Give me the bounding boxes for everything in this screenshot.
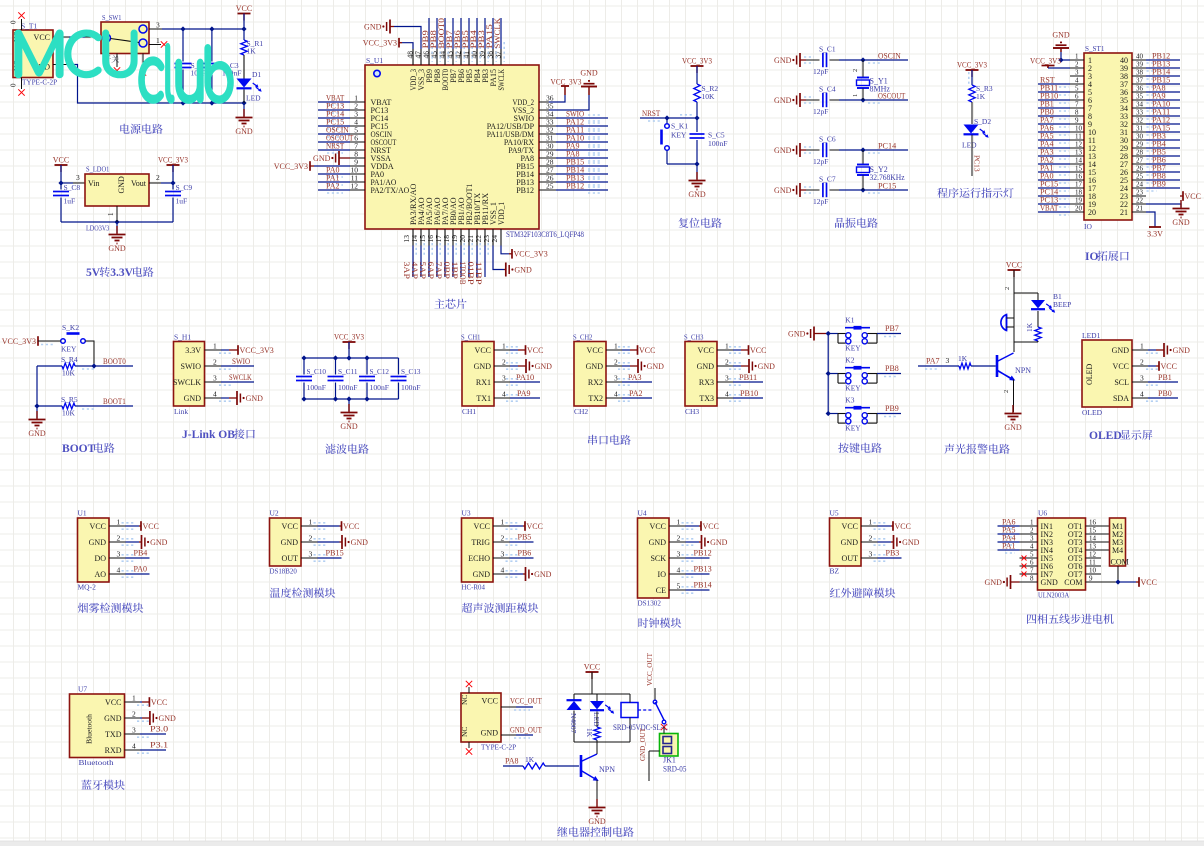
svg-text:VCC_3V3: VCC_3V3 bbox=[240, 346, 274, 355]
svg-text:GND: GND bbox=[150, 538, 168, 547]
svg-text:VCC: VCC bbox=[151, 698, 167, 707]
svg-text:PB0: PB0 bbox=[1158, 389, 1172, 398]
svg-text:SWCLK: SWCLK bbox=[493, 18, 502, 49]
svg-text:VCC: VCC bbox=[750, 346, 766, 355]
svg-text:PB7: PB7 bbox=[885, 324, 899, 333]
svg-text:OLED: OLED bbox=[1085, 363, 1094, 385]
svg-text:VCC: VCC bbox=[53, 156, 69, 165]
svg-text:LED: LED bbox=[246, 94, 261, 103]
svg-text:PA3: PA3 bbox=[628, 373, 642, 382]
svg-text:26: 26 bbox=[1136, 165, 1144, 173]
svg-text:VCC_3V3: VCC_3V3 bbox=[334, 333, 364, 342]
svg-text:Vout: Vout bbox=[131, 179, 147, 188]
svg-text:S_C13: S_C13 bbox=[401, 367, 421, 376]
svg-text:GND: GND bbox=[535, 362, 553, 371]
svg-text:29: 29 bbox=[1136, 141, 1144, 149]
svg-text:VCC_3V3: VCC_3V3 bbox=[957, 61, 987, 70]
svg-text:S_C7: S_C7 bbox=[819, 175, 836, 184]
svg-text:VCC_3V3: VCC_3V3 bbox=[158, 156, 188, 165]
svg-text:32.768KHz: 32.768KHz bbox=[870, 173, 906, 182]
svg-text:1: 1 bbox=[132, 694, 136, 703]
svg-text:K1: K1 bbox=[845, 315, 854, 324]
svg-text:12pF: 12pF bbox=[813, 157, 828, 166]
svg-text:VCC: VCC bbox=[1113, 362, 1129, 371]
svg-text:U7: U7 bbox=[78, 685, 87, 694]
svg-text:4: 4 bbox=[614, 390, 618, 399]
svg-text:VCC: VCC bbox=[1161, 362, 1177, 371]
svg-text:4: 4 bbox=[1030, 543, 1034, 551]
svg-text:GND: GND bbox=[474, 362, 492, 371]
svg-text:3: 3 bbox=[725, 374, 729, 383]
svg-text:S_C12: S_C12 bbox=[370, 367, 390, 376]
svg-text:STM32F103C8T6_LQFP48: STM32F103C8T6_LQFP48 bbox=[506, 230, 584, 239]
svg-text:SDA: SDA bbox=[1113, 394, 1129, 403]
svg-text:7: 7 bbox=[1075, 101, 1079, 109]
svg-text:0: 0 bbox=[10, 20, 18, 24]
svg-text:13: 13 bbox=[1075, 149, 1083, 157]
svg-text:PA1: PA1 bbox=[1002, 542, 1016, 551]
svg-text:S_LDO1: S_LDO1 bbox=[86, 165, 110, 174]
svg-text:10K: 10K bbox=[62, 369, 76, 378]
svg-text:5: 5 bbox=[1075, 85, 1079, 93]
svg-text:17: 17 bbox=[1075, 181, 1083, 189]
svg-text:S_K2: S_K2 bbox=[62, 323, 79, 332]
svg-text:GND: GND bbox=[586, 362, 604, 371]
svg-text:3: 3 bbox=[132, 726, 136, 735]
svg-text:1: 1 bbox=[1075, 53, 1079, 61]
svg-text:KEY: KEY bbox=[845, 384, 861, 393]
svg-text:PB15: PB15 bbox=[326, 549, 344, 558]
svg-text:PB3: PB3 bbox=[886, 549, 900, 558]
svg-text:100nF: 100nF bbox=[307, 383, 327, 392]
svg-text:P3.0: P3.0 bbox=[150, 725, 168, 734]
svg-text:3: 3 bbox=[309, 550, 313, 559]
svg-text:GND: GND bbox=[1112, 346, 1130, 355]
svg-text:33: 33 bbox=[1136, 109, 1144, 117]
svg-text:1: 1 bbox=[501, 518, 505, 527]
svg-text:14: 14 bbox=[1075, 157, 1083, 165]
svg-text:M4: M4 bbox=[1112, 546, 1123, 555]
svg-text:SWCLK: SWCLK bbox=[173, 378, 201, 387]
svg-text:GND: GND bbox=[649, 538, 667, 547]
svg-text:Vin: Vin bbox=[88, 179, 100, 188]
svg-text:1: 1 bbox=[156, 36, 160, 45]
svg-text:PB1: PB1 bbox=[1158, 373, 1172, 382]
svg-text:VDD_1: VDD_1 bbox=[497, 202, 506, 225]
svg-text:100nF: 100nF bbox=[401, 383, 421, 392]
svg-text:ECHO: ECHO bbox=[468, 554, 490, 563]
svg-text:GND: GND bbox=[514, 266, 532, 275]
svg-text:S_K1: S_K1 bbox=[671, 122, 688, 131]
svg-text:VCC: VCC bbox=[474, 522, 490, 531]
svg-text:GND: GND bbox=[235, 127, 253, 136]
svg-text:OUT: OUT bbox=[282, 554, 299, 563]
svg-text:GND: GND bbox=[774, 96, 792, 105]
svg-text:VCC_OUT: VCC_OUT bbox=[645, 653, 654, 686]
svg-text:VCC: VCC bbox=[1141, 578, 1157, 587]
svg-text:GND: GND bbox=[841, 538, 859, 547]
svg-text:VCC: VCC bbox=[343, 522, 359, 531]
svg-text:PB12: PB12 bbox=[566, 182, 584, 191]
svg-text:VBAT: VBAT bbox=[1040, 204, 1058, 213]
svg-text:2: 2 bbox=[132, 710, 136, 719]
svg-text:Bluetooth: Bluetooth bbox=[85, 714, 94, 744]
svg-text:1: 1 bbox=[725, 342, 729, 351]
svg-text:GND: GND bbox=[985, 578, 1003, 587]
svg-text:3: 3 bbox=[117, 550, 121, 559]
svg-text:GND: GND bbox=[159, 714, 177, 723]
svg-text:3: 3 bbox=[946, 356, 950, 365]
svg-text:20: 20 bbox=[1088, 208, 1096, 217]
svg-text:TX2: TX2 bbox=[588, 394, 603, 403]
svg-text:LDO3V3: LDO3V3 bbox=[86, 224, 110, 233]
svg-text:U4: U4 bbox=[638, 509, 647, 518]
svg-text:100nF: 100nF bbox=[370, 383, 390, 392]
svg-text:PB4: PB4 bbox=[134, 549, 148, 558]
svg-text:OUT: OUT bbox=[842, 554, 859, 563]
svg-text:1TOOB: 1TOOB bbox=[458, 262, 467, 285]
svg-text:S_C10: S_C10 bbox=[307, 367, 327, 376]
svg-text:31: 31 bbox=[1136, 125, 1144, 133]
svg-text:BEEP: BEEP bbox=[1053, 300, 1071, 309]
svg-text:25: 25 bbox=[546, 182, 554, 191]
svg-text:21: 21 bbox=[1136, 205, 1144, 213]
svg-text:VCC: VCC bbox=[1006, 261, 1022, 270]
svg-text:VCC: VCC bbox=[527, 346, 543, 355]
svg-text:SRD-05: SRD-05 bbox=[663, 765, 686, 774]
svg-text:S_U1: S_U1 bbox=[366, 56, 383, 65]
svg-text:VCC: VCC bbox=[639, 346, 655, 355]
svg-text:S_R5: S_R5 bbox=[61, 395, 78, 404]
svg-text:LED: LED bbox=[962, 141, 977, 150]
svg-text:3: 3 bbox=[501, 550, 505, 559]
svg-text:U5: U5 bbox=[830, 509, 839, 518]
svg-text:2: 2 bbox=[1004, 287, 1011, 290]
svg-text:GND: GND bbox=[313, 154, 331, 163]
svg-text:GND: GND bbox=[758, 362, 776, 371]
svg-text:2: 2 bbox=[309, 534, 313, 543]
svg-text:VCC: VCC bbox=[703, 522, 719, 531]
svg-text:12: 12 bbox=[1075, 141, 1083, 149]
svg-text:22: 22 bbox=[1136, 197, 1144, 205]
svg-text:CH1: CH1 bbox=[462, 407, 476, 416]
svg-text:GND: GND bbox=[647, 362, 665, 371]
svg-text:10: 10 bbox=[1089, 567, 1097, 575]
svg-text:19: 19 bbox=[1075, 197, 1083, 205]
svg-text:2: 2 bbox=[1075, 61, 1079, 69]
svg-text:TYPE-C-2P: TYPE-C-2P bbox=[481, 743, 516, 752]
svg-text:OLED: OLED bbox=[1089, 430, 1122, 442]
svg-text:COM: COM bbox=[1111, 558, 1129, 567]
svg-text:3: 3 bbox=[869, 550, 873, 559]
svg-text:VCC: VCC bbox=[698, 346, 714, 355]
svg-text:GND: GND bbox=[697, 362, 715, 371]
svg-text:IO: IO bbox=[658, 570, 667, 579]
svg-text:GND: GND bbox=[1172, 218, 1190, 227]
svg-text:GND_OUT: GND_OUT bbox=[638, 728, 647, 761]
svg-text:1K: 1K bbox=[247, 47, 257, 56]
svg-text:3.3V: 3.3V bbox=[110, 267, 133, 279]
svg-text:GND: GND bbox=[481, 729, 499, 738]
svg-text:SWCLK: SWCLK bbox=[497, 69, 506, 91]
svg-text:KEY: KEY bbox=[845, 424, 861, 433]
svg-text:ULN2003A: ULN2003A bbox=[1038, 591, 1070, 600]
svg-text:0BP: 0BP bbox=[442, 262, 451, 280]
svg-text:1: 1 bbox=[117, 518, 121, 527]
svg-text:PA2: PA2 bbox=[629, 389, 643, 398]
svg-text:2: 2 bbox=[1030, 527, 1034, 535]
svg-text:28: 28 bbox=[1136, 149, 1144, 157]
svg-text:SCL: SCL bbox=[1114, 378, 1129, 387]
svg-text:PC13: PC13 bbox=[973, 155, 982, 172]
svg-text:K3: K3 bbox=[845, 395, 854, 404]
svg-text:NC: NC bbox=[460, 695, 469, 705]
svg-text:GND_OUT: GND_OUT bbox=[510, 726, 542, 735]
svg-text:1: 1 bbox=[1030, 519, 1034, 527]
svg-text:RX1: RX1 bbox=[476, 378, 491, 387]
svg-text:2: 2 bbox=[869, 534, 873, 543]
svg-text:4: 4 bbox=[213, 390, 217, 399]
svg-text:VCC: VCC bbox=[105, 698, 121, 707]
svg-text:10K: 10K bbox=[702, 92, 716, 101]
svg-text:TRIG: TRIG bbox=[471, 538, 490, 547]
svg-text:1: 1 bbox=[614, 342, 618, 351]
svg-text:PA8: PA8 bbox=[505, 757, 519, 766]
svg-text:PB9: PB9 bbox=[885, 404, 899, 413]
svg-text:MQ-2: MQ-2 bbox=[78, 583, 97, 592]
svg-text:1K: 1K bbox=[525, 755, 535, 764]
svg-text:32: 32 bbox=[1136, 117, 1144, 125]
svg-text:VCC: VCC bbox=[584, 663, 600, 672]
svg-text:1BP: 1BP bbox=[450, 262, 459, 280]
svg-text:PC14: PC14 bbox=[878, 142, 896, 151]
svg-text:GND: GND bbox=[580, 69, 598, 78]
svg-text:PB13: PB13 bbox=[694, 565, 712, 574]
svg-text:S_C6: S_C6 bbox=[819, 135, 836, 144]
svg-text:8: 8 bbox=[1030, 575, 1034, 583]
svg-text:4: 4 bbox=[502, 390, 506, 399]
svg-text:TX1: TX1 bbox=[476, 394, 491, 403]
svg-text:GND: GND bbox=[774, 56, 792, 65]
svg-text:IO: IO bbox=[1085, 251, 1098, 263]
svg-text:VCC: VCC bbox=[475, 346, 491, 355]
svg-text:5AP: 5AP bbox=[418, 262, 427, 280]
svg-text:VCC: VCC bbox=[236, 4, 252, 13]
svg-text:NPN: NPN bbox=[599, 765, 615, 774]
svg-text:PB12: PB12 bbox=[516, 186, 534, 195]
svg-text:2: 2 bbox=[1003, 390, 1010, 393]
svg-text:2: 2 bbox=[213, 358, 217, 367]
svg-text:VCC_OUT: VCC_OUT bbox=[510, 697, 542, 706]
svg-text:VCC: VCC bbox=[527, 522, 543, 531]
svg-text:TX3: TX3 bbox=[699, 394, 714, 403]
svg-text:11: 11 bbox=[1075, 133, 1082, 141]
svg-text:1K: 1K bbox=[585, 728, 594, 738]
svg-text:RXD: RXD bbox=[105, 746, 122, 755]
svg-text:RX3: RX3 bbox=[699, 378, 714, 387]
svg-text:9: 9 bbox=[1075, 117, 1079, 125]
svg-text:HC-R04: HC-R04 bbox=[462, 583, 486, 592]
svg-text:SWIO: SWIO bbox=[232, 357, 250, 366]
svg-text:VCC_3V3: VCC_3V3 bbox=[2, 337, 36, 346]
svg-text:20: 20 bbox=[1075, 205, 1083, 213]
svg-text:16: 16 bbox=[1075, 173, 1083, 181]
svg-text:S_CH1: S_CH1 bbox=[461, 333, 481, 342]
svg-text:25: 25 bbox=[1136, 173, 1144, 181]
svg-text:GND: GND bbox=[1052, 31, 1070, 40]
svg-text:27: 27 bbox=[1136, 157, 1144, 165]
svg-text:NRST: NRST bbox=[642, 109, 660, 118]
svg-text:VCC_3V3: VCC_3V3 bbox=[551, 78, 582, 87]
svg-text:7AP: 7AP bbox=[434, 262, 443, 280]
svg-text:PB9: PB9 bbox=[1152, 180, 1166, 189]
svg-text:1: 1 bbox=[213, 342, 217, 351]
svg-text:5: 5 bbox=[1030, 551, 1034, 559]
svg-text:1: 1 bbox=[852, 94, 859, 97]
svg-text:BZ: BZ bbox=[830, 567, 840, 576]
svg-text:PB11: PB11 bbox=[739, 373, 757, 382]
svg-text:VCC: VCC bbox=[1185, 192, 1201, 201]
svg-text:S_ST1: S_ST1 bbox=[1085, 44, 1105, 53]
svg-text:VCC_3V3: VCC_3V3 bbox=[363, 39, 397, 48]
svg-text:4: 4 bbox=[677, 566, 681, 575]
svg-text:GND: GND bbox=[774, 186, 792, 195]
svg-text:PB12: PB12 bbox=[694, 549, 712, 558]
svg-text:16: 16 bbox=[1089, 519, 1097, 527]
svg-text:Bluetooth: Bluetooth bbox=[79, 758, 114, 767]
svg-text:35: 35 bbox=[1136, 93, 1144, 101]
svg-text:1uF: 1uF bbox=[176, 197, 188, 206]
svg-text:JK1: JK1 bbox=[663, 756, 676, 765]
svg-text:36: 36 bbox=[1136, 85, 1144, 93]
svg-text:CH2: CH2 bbox=[574, 407, 588, 416]
svg-text:S_T1: S_T1 bbox=[21, 22, 38, 31]
svg-text:3: 3 bbox=[1030, 535, 1034, 543]
svg-text:1: 1 bbox=[502, 342, 506, 351]
svg-text:4: 4 bbox=[132, 742, 136, 751]
svg-text:3: 3 bbox=[614, 374, 618, 383]
svg-text:GND: GND bbox=[108, 244, 126, 253]
svg-text:1: 1 bbox=[1140, 342, 1144, 351]
svg-text:1: 1 bbox=[677, 518, 681, 527]
svg-text:30: 30 bbox=[1136, 133, 1144, 141]
svg-text:RX2: RX2 bbox=[588, 378, 603, 387]
svg-text:COM: COM bbox=[1064, 578, 1082, 587]
svg-text:18: 18 bbox=[1075, 189, 1083, 197]
svg-text:SWIO: SWIO bbox=[181, 362, 202, 371]
svg-text:KEY: KEY bbox=[845, 344, 861, 353]
svg-text:GND: GND bbox=[246, 394, 264, 403]
svg-text:GND: GND bbox=[788, 330, 806, 339]
svg-text:38: 38 bbox=[1136, 69, 1144, 77]
svg-text:S_C8: S_C8 bbox=[64, 183, 81, 192]
svg-text:VCC: VCC bbox=[587, 346, 603, 355]
svg-text:1K: 1K bbox=[958, 354, 968, 363]
svg-text:IO: IO bbox=[1084, 222, 1092, 231]
svg-text:N4007: N4007 bbox=[569, 713, 578, 734]
svg-text:3: 3 bbox=[213, 374, 217, 383]
svg-text:BOOT1: BOOT1 bbox=[103, 397, 126, 406]
svg-text:11BP: 11BP bbox=[474, 262, 483, 286]
svg-text:BOOT0: BOOT0 bbox=[103, 357, 126, 366]
svg-text:PA2/TX/AO: PA2/TX/AO bbox=[371, 186, 410, 195]
svg-text:1K: 1K bbox=[1025, 322, 1034, 332]
svg-text:NC: NC bbox=[460, 727, 469, 737]
svg-text:37: 37 bbox=[1136, 77, 1144, 85]
svg-text:GND: GND bbox=[473, 570, 491, 579]
svg-text:VCC: VCC bbox=[282, 522, 298, 531]
svg-text:D1: D1 bbox=[252, 70, 261, 79]
svg-text:PA7: PA7 bbox=[926, 357, 940, 366]
svg-text:PB5: PB5 bbox=[518, 533, 532, 542]
svg-text:12: 12 bbox=[351, 182, 359, 191]
svg-text:GND: GND bbox=[534, 570, 552, 579]
svg-text:24: 24 bbox=[1136, 181, 1144, 189]
svg-text:U2: U2 bbox=[270, 509, 279, 518]
svg-text:GND: GND bbox=[364, 23, 382, 32]
svg-text:NRST: NRST bbox=[326, 142, 344, 151]
svg-text:VCC_3V3: VCC_3V3 bbox=[682, 57, 712, 66]
svg-text:GND: GND bbox=[688, 190, 706, 199]
svg-text:DS18B20: DS18B20 bbox=[270, 567, 298, 576]
svg-text:PB10: PB10 bbox=[740, 389, 758, 398]
svg-text:U3: U3 bbox=[462, 509, 471, 518]
svg-text:GND: GND bbox=[710, 538, 728, 547]
svg-text:3: 3 bbox=[1075, 69, 1079, 77]
svg-text:12pF: 12pF bbox=[813, 107, 828, 116]
svg-text:VCC: VCC bbox=[482, 697, 498, 706]
svg-text:40: 40 bbox=[1136, 53, 1144, 61]
svg-text:2: 2 bbox=[1140, 358, 1144, 367]
svg-text:5V: 5V bbox=[86, 267, 101, 279]
svg-text:LED1: LED1 bbox=[1082, 331, 1101, 340]
svg-text:2: 2 bbox=[117, 534, 121, 543]
svg-text:2: 2 bbox=[502, 358, 506, 367]
svg-text:5: 5 bbox=[677, 582, 681, 591]
svg-text:S_H1: S_H1 bbox=[174, 333, 191, 342]
svg-text:GND: GND bbox=[1004, 423, 1022, 432]
svg-text:10: 10 bbox=[1075, 125, 1083, 133]
svg-text:VCC: VCC bbox=[90, 522, 106, 531]
svg-text:GND: GND bbox=[1173, 346, 1191, 355]
svg-text:J-Link OB: J-Link OB bbox=[182, 429, 235, 441]
svg-text:PC15: PC15 bbox=[878, 182, 896, 191]
svg-text:3AP: 3AP bbox=[402, 262, 411, 280]
svg-text:U6: U6 bbox=[1038, 509, 1047, 518]
svg-text:1: 1 bbox=[107, 212, 115, 216]
svg-text:PA0: PA0 bbox=[134, 565, 148, 574]
svg-text:SWCLK: SWCLK bbox=[229, 373, 252, 382]
svg-text:S_C4: S_C4 bbox=[819, 85, 836, 94]
svg-text:TYPE-C-2P: TYPE-C-2P bbox=[22, 78, 57, 87]
svg-text:S_R4: S_R4 bbox=[61, 355, 78, 364]
svg-text:7: 7 bbox=[1030, 567, 1034, 575]
svg-text:13: 13 bbox=[1089, 543, 1097, 551]
svg-text:NPN: NPN bbox=[1015, 366, 1031, 375]
svg-text:21: 21 bbox=[1120, 208, 1128, 217]
svg-text:2: 2 bbox=[614, 358, 618, 367]
svg-text:S_C11: S_C11 bbox=[338, 367, 358, 376]
svg-text:12pF: 12pF bbox=[813, 197, 828, 206]
svg-text:VCC: VCC bbox=[895, 522, 911, 531]
svg-text:GND: GND bbox=[28, 429, 46, 438]
svg-text:1: 1 bbox=[869, 518, 873, 527]
svg-text:3: 3 bbox=[677, 550, 681, 559]
svg-text:S_CH3: S_CH3 bbox=[684, 333, 704, 342]
svg-text:100nF: 100nF bbox=[708, 139, 728, 148]
svg-text:VCC_3V3: VCC_3V3 bbox=[274, 162, 308, 171]
svg-text:1uF: 1uF bbox=[64, 197, 76, 206]
